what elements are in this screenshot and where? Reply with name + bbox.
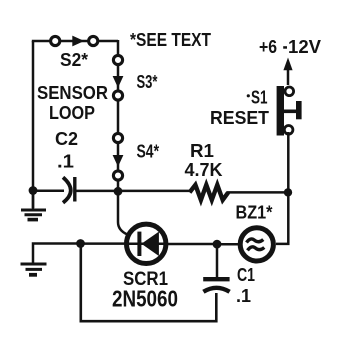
wire main horizontal left <box>33 190 64 193</box>
ground 1 <box>21 191 46 220</box>
svg-text:S4*: S4* <box>137 142 160 162</box>
label 2N5060 <box>112 286 178 312</box>
wire left vertical sensor-loop <box>32 41 35 208</box>
label SCR1 <box>123 268 168 290</box>
wire main horizontal middle <box>76 190 191 193</box>
resistor R1 <box>190 185 229 200</box>
SCR gate wire <box>118 192 128 235</box>
wire SCR anode <box>166 243 217 246</box>
svg-text:+6: +6 <box>259 37 277 57</box>
label R1 <box>190 141 214 161</box>
svg-text:C1: C1 <box>237 265 255 285</box>
label S3* <box>137 72 158 92</box>
label C1 value .1 <box>236 286 251 306</box>
svg-text:.1: .1 <box>236 286 251 306</box>
svg-text:.1: .1 <box>57 152 74 172</box>
label C1 <box>237 265 255 285</box>
pushbutton S1 <box>277 86 302 136</box>
buzzer BZ1 <box>240 228 273 261</box>
switch S3 <box>113 55 124 100</box>
SCR1 <box>127 224 166 263</box>
switch S4 <box>113 133 124 180</box>
wire main horizontal right <box>227 191 289 194</box>
wire buzzer left to C1 node <box>217 243 240 246</box>
label +6 -12V <box>259 37 321 57</box>
supply +6-12V arrow <box>283 58 292 86</box>
node junction below S4 <box>114 187 123 196</box>
capacitor C2 <box>63 177 75 203</box>
wire SCR cathode <box>80 242 126 245</box>
svg-text:LOOP: LOOP <box>49 102 95 123</box>
label S4* <box>137 142 160 162</box>
svg-text:S1: S1 <box>251 88 268 108</box>
svg-text:BZ1*: BZ1* <box>236 203 273 223</box>
label SENSOR <box>37 82 108 103</box>
wire top horizontal <box>32 40 118 43</box>
svg-text:RESET: RESET <box>210 107 270 128</box>
wire C1 top lead <box>216 244 219 277</box>
svg-text:S3*: S3* <box>137 72 158 92</box>
svg-text:2N5060: 2N5060 <box>112 286 178 312</box>
label LOOP <box>49 102 95 123</box>
label RESET <box>210 107 270 128</box>
switch S2 <box>51 36 98 47</box>
node junction cathode <box>76 239 85 248</box>
node junction C1 top <box>213 240 222 249</box>
svg-text:*SEE TEXT: *SEE TEXT <box>130 30 211 50</box>
svg-text:R1: R1 <box>190 141 214 161</box>
wire right vertical chain <box>117 40 120 190</box>
wire S1 to junction and buzzer <box>276 132 288 244</box>
label SEE TEXT <box>130 30 211 50</box>
capacitor C1 <box>203 279 229 292</box>
svg-text:S2*: S2* <box>60 50 88 70</box>
ground 2 <box>21 264 47 275</box>
label R1 value 4.7K <box>185 160 223 180</box>
label BZ1* <box>236 203 273 223</box>
svg-text:C2: C2 <box>55 129 78 149</box>
svg-text:12V: 12V <box>288 37 321 57</box>
node junction R1/S1 <box>284 188 292 196</box>
svg-text:4.7K: 4.7K <box>185 160 223 180</box>
label S2* <box>60 50 88 70</box>
label S1 <box>247 88 268 108</box>
wire bottom loop <box>81 244 217 322</box>
label C2 value .1 <box>57 152 74 172</box>
wire to ground 2 <box>33 244 80 263</box>
svg-text:SENSOR: SENSOR <box>37 82 108 103</box>
node junction left <box>29 186 38 195</box>
label C2 <box>55 129 78 149</box>
